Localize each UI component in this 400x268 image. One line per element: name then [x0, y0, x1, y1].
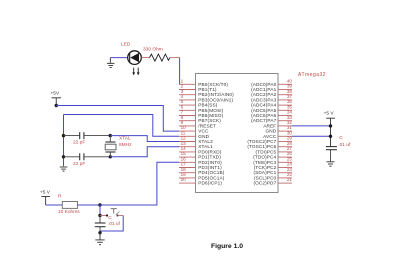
node crystal bottom junction — [109, 155, 112, 158]
svg-text:XTAL: XTAL — [119, 135, 131, 141]
U1 pin 16 stub (PD2(INT0)) — [179, 161, 196, 163]
U1 pin 9 stub (/RESET) — [179, 125, 196, 127]
svg-text:.01 uf: .01 uf — [338, 142, 351, 148]
U1 pin 20 stub (PD6(ICP1)) — [179, 182, 196, 184]
capacitor C1 22 pF — [64, 132, 111, 139]
svg-text:10 Kohms: 10 Kohms — [58, 209, 80, 215]
U1 pin 23 stub ((SDA)PC1) — [278, 172, 292, 174]
wire AVCC pin 30 to +5V node — [292, 135, 331, 137]
U1 pin 36 stub ((ADC4)PA4) — [278, 104, 292, 106]
capacitor C2 22 pF — [64, 153, 111, 160]
svg-text:C: C — [108, 215, 112, 221]
U1 pin 10 stub (VCC) — [179, 130, 196, 132]
U1 pin 34 stub ((ADC6)PA6) — [278, 115, 292, 117]
U1 pin 14 stub (PD0(RXD)) — [179, 151, 196, 153]
svg-text:R: R — [58, 193, 62, 199]
U1 pin 6 stub (PB5(MOSI)) — [179, 109, 196, 111]
capacitor C .01 uf (right) — [326, 147, 337, 162]
ground (LED branch) — [107, 58, 115, 68]
wire crystal bottom to XTAL1 pin 13 — [110, 147, 179, 157]
U1 pin 40 stub ((ADC0)PA0) — [278, 83, 292, 85]
svg-text:20: 20 — [181, 177, 187, 182]
U1 pin 4 stub (PB3(OC0/AIN1)) — [179, 99, 196, 101]
svg-text:22 pF: 22 pF — [73, 140, 85, 146]
U1 pin 19 stub (PD5(OC1A)) — [179, 177, 196, 179]
U1 pin 13 stub (XTAL1) — [179, 146, 196, 148]
svg-text:ATmega32: ATmega32 — [298, 72, 326, 78]
wire crystal top to XTAL2 pin 12 — [110, 136, 179, 142]
node B junction — [98, 214, 101, 217]
U1 pin 29 stub ((TOSC2)PC7) — [278, 141, 292, 143]
U1 pin 8 stub (PB7(SCK)) — [179, 120, 196, 122]
node crystal top junction — [109, 134, 112, 137]
wire ground rail vertical — [63, 115, 65, 167]
U1 pin 35 stub ((ADC5)PA5) — [278, 109, 292, 111]
wire LED to resistor — [141, 57, 149, 59]
wire corner down to pin 1 — [179, 58, 181, 85]
node cap-ground junction — [98, 231, 101, 234]
U1 pin 7 stub (PB6(MISO)) — [179, 115, 196, 117]
wire ground to LED — [110, 57, 127, 59]
node cap C2 left junction — [62, 155, 65, 158]
U1 pin 3 stub (PB2(INT2/AIN0)) — [179, 94, 196, 96]
svg-text:PD6(ICP1): PD6(ICP1) — [198, 181, 222, 186]
svg-text:LED: LED — [121, 42, 131, 48]
power +5V (bottom left) — [40, 190, 51, 205]
svg-text:21: 21 — [287, 177, 293, 182]
U1 pin 30 stub (AVCC) — [278, 135, 292, 137]
U1 pin 15 stub (PD1(TXD)) — [179, 156, 196, 158]
svg-text:(OC2)PD7: (OC2)PD7 — [253, 181, 276, 186]
U1 pin 32 stub (AREF) — [278, 125, 292, 127]
switch S push button — [100, 209, 123, 217]
U1 pin 26 stub ((TDO)PC4) — [278, 156, 292, 158]
U1 pin 1 stub (PB0(XCK/T0)) — [179, 83, 196, 85]
U1 pin 27 stub ((TDI)PC5) — [278, 151, 292, 153]
U1 pin 25 stub ((TMS)PC3) — [278, 161, 292, 163]
svg-text:+5V: +5V — [51, 90, 60, 96]
wire resistor to corner — [170, 57, 180, 59]
U1 pin 33 stub ((ADC7)PA7) — [278, 120, 292, 122]
svg-text:+5 V: +5 V — [40, 190, 51, 196]
svg-text:Figure 1.0: Figure 1.0 — [211, 243, 243, 250]
wire AREF pin 32 to +5V node — [292, 125, 331, 127]
power +5V (right) — [324, 111, 335, 147]
svg-text:330 Ohm: 330 Ohm — [143, 46, 163, 52]
U1 pin 21 stub ((OC2)PD7) — [278, 182, 292, 184]
U1 pin 18 stub (PD4(OC1B)) — [179, 172, 196, 174]
crystal XTAL 8MHz — [105, 136, 116, 157]
U1 pin 17 stub (PD3(INT1)) — [179, 167, 196, 169]
U1 pin 28 stub ((TOSC1)PC6) — [278, 146, 292, 148]
wire +5V to VCC pin 10 — [56, 106, 179, 132]
U1 pin 11 stub (GND) — [179, 135, 196, 137]
LED D1 — [128, 51, 142, 76]
node A junction — [98, 203, 101, 206]
IC U1 ATmega32 body — [196, 74, 279, 193]
wire node A to INT0 pin 16 — [100, 162, 179, 205]
svg-text:C: C — [339, 135, 343, 141]
ground (crystal caps) — [60, 167, 68, 171]
capacitor C .01 uf (reset) — [95, 216, 106, 233]
U1 pin 24 stub ((TCK)PC2) — [278, 167, 292, 169]
wire switch return to cap bottom — [100, 216, 123, 232]
U1 pin 22 stub ((SCL)PC0) — [278, 177, 292, 179]
resistor 330 Ohm — [150, 54, 170, 61]
ground (right branch) — [327, 162, 335, 166]
U1 pin 12 stub (XTAL2) — [179, 141, 196, 143]
wire ground rail to GND pin 11 — [64, 115, 180, 137]
wire node A down to node B — [99, 205, 101, 216]
U1 pin 31 stub (GND) — [278, 130, 292, 132]
power +5V (top left) — [51, 90, 62, 105]
svg-text:.01 uf: .01 uf — [108, 221, 121, 227]
U1 pin 39 stub ((ADC1)PA1) — [278, 89, 292, 91]
node cap C1 left junction — [62, 134, 65, 137]
svg-text:22 pF: 22 pF — [73, 161, 85, 167]
wire +5V to resistor R — [46, 204, 63, 206]
wire resistor to node A — [78, 204, 101, 206]
node +5V junction — [55, 104, 58, 107]
svg-text:+5 V: +5 V — [324, 111, 335, 117]
svg-text:8MHz: 8MHz — [119, 142, 132, 148]
U1 pin 37 stub ((ADC3)PA3) — [278, 99, 292, 101]
U1 pin 2 stub (PB1(T1)) — [179, 89, 196, 91]
resistor R 10 Kohms — [62, 202, 77, 209]
node AREF junction — [329, 124, 332, 127]
U1 pin 5 stub (PB4(SS)) — [179, 104, 196, 106]
ground (reset branch) — [95, 233, 104, 245]
node AVCC junction — [329, 135, 332, 138]
U1 pin 38 stub ((ADC2)PA2) — [278, 94, 292, 96]
